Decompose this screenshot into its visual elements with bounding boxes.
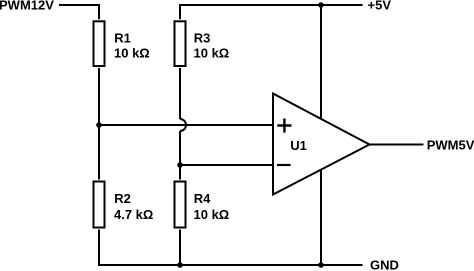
- resistor R3: [175, 21, 230, 66]
- node junction middle column / inverting: [177, 162, 183, 168]
- wire left column R2 to ground rail: [98, 230, 100, 266]
- svg-text:R3: R3: [194, 30, 211, 45]
- node junction R4 / ground rail: [177, 262, 183, 268]
- svg-text:PWM12V: PWM12V: [0, 0, 54, 12]
- wire +5V top rail: [180, 5, 363, 19]
- wire hop over noninverting wire: [180, 119, 186, 131]
- svg-text:R4: R4: [194, 191, 211, 206]
- svg-text:10 kΩ: 10 kΩ: [194, 46, 230, 61]
- node junction left column / noninverting: [96, 122, 102, 128]
- node junction +5V rail: [318, 2, 324, 8]
- resistor R1: [94, 21, 150, 66]
- svg-text:10 kΩ: 10 kΩ: [114, 46, 150, 61]
- wire output to PWM5V: [370, 144, 424, 146]
- wire noninverting input: [99, 124, 272, 126]
- wire +5V column top rail to ground rail: [320, 5, 322, 265]
- wire middle column R3 to hop: [179, 68, 181, 119]
- svg-text:GND: GND: [370, 258, 399, 271]
- svg-text:10 kΩ: 10 kΩ: [194, 207, 230, 222]
- svg-text:R2: R2: [114, 191, 131, 206]
- wire left column R1 to R2: [98, 68, 100, 180]
- wire PWM12V lead to R1: [59, 5, 99, 19]
- node junction +5V column / ground rail: [318, 262, 324, 268]
- svg-text:PWM5V: PWM5V: [427, 137, 474, 152]
- wire middle column hop to R4: [179, 131, 181, 180]
- op-amp U1: [273, 94, 370, 195]
- svg-text:R1: R1: [114, 30, 131, 45]
- svg-text:4.7 kΩ: 4.7 kΩ: [114, 207, 153, 222]
- resistor R4: [175, 182, 230, 228]
- resistor R2: [94, 182, 154, 228]
- svg-text:U1: U1: [290, 138, 307, 153]
- svg-text:+5V: +5V: [368, 0, 392, 12]
- wire ground rail: [98, 264, 363, 266]
- wire inverting input: [180, 164, 272, 166]
- wire middle column R4 to ground rail: [179, 230, 181, 266]
